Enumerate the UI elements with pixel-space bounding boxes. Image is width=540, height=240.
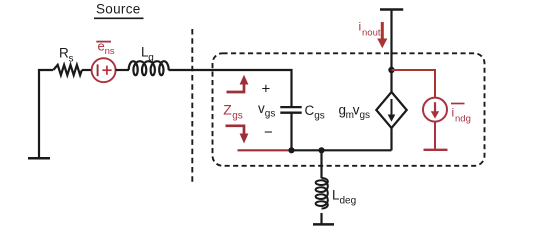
svg-text:Source: Source [96, 2, 141, 17]
svg-text:ndg: ndg [455, 114, 471, 125]
svg-text:i: i [359, 20, 362, 34]
red wire: Zgs reference to bottom node [238, 149, 292, 151]
voltage source ens (noise source circle) [92, 58, 116, 82]
wire: rail to Ldeg [320, 150, 322, 178]
wire: Ldeg to ground [320, 213, 322, 224]
svg-text:nout: nout [362, 28, 381, 39]
label Lg [141, 45, 154, 64]
label gmvgs [339, 102, 371, 121]
wire: output vertical (drain) [390, 10, 392, 93]
label inout [359, 20, 381, 39]
label: − polarity of vgs [264, 124, 273, 141]
wire: source loop left vertical [39, 70, 53, 158]
ground: indg reference bar [424, 149, 448, 151]
svg-text:Z: Z [223, 102, 232, 118]
ground: source side bar [28, 157, 50, 160]
impedance indicator Zgs bottom arrow [226, 126, 249, 144]
label Rs [59, 46, 74, 65]
current arrow inout [377, 22, 387, 48]
label Cgs [305, 103, 325, 122]
node: drain junction [388, 67, 394, 73]
svg-text:gs: gs [232, 111, 243, 122]
red wire: drain node to indg [392, 70, 436, 98]
svg-text:deg: deg [340, 196, 357, 207]
wire: indg bottom lead [434, 122, 436, 150]
svg-text:+: + [262, 81, 271, 98]
svg-text:g: g [148, 53, 154, 64]
node: Ldeg tap junction [318, 147, 324, 153]
label vgs [258, 101, 275, 120]
svg-text:gs: gs [314, 111, 325, 122]
label Ldeg [332, 188, 356, 207]
wire: diamond bottom to rail [390, 128, 392, 150]
wire: bottom rail [292, 149, 392, 151]
output terminal bar [380, 8, 403, 10]
svg-text:ns: ns [105, 46, 115, 57]
separator: vertical dashed line [191, 29, 193, 184]
wire: Rs to ens [82, 69, 92, 71]
label indg (overline) [451, 104, 471, 125]
wire: ens to Lg [116, 69, 129, 71]
dashed box: transistor small-signal model [213, 53, 485, 166]
capacitor Cgs [280, 107, 301, 150]
label ens (overline) [96, 39, 115, 58]
impedance indicator Zgs top arrow [227, 75, 249, 92]
label: Source header [94, 2, 144, 19]
VCCS gmvgs (diamond dependent source) [376, 92, 406, 128]
label Zgs [223, 102, 242, 122]
resistor Rs [53, 65, 82, 75]
label: + polarity of vgs [262, 81, 271, 98]
ground: Ldeg bar [313, 223, 334, 226]
inductor Ldeg [316, 178, 328, 209]
svg-text:−: − [264, 124, 273, 141]
svg-text:i: i [452, 106, 455, 120]
inductor Lg [129, 61, 169, 75]
svg-text:gs: gs [360, 110, 371, 121]
svg-text:s: s [69, 54, 74, 65]
svg-text:gs: gs [265, 109, 276, 120]
node: Cgs bottom junction [288, 147, 294, 153]
current source indg (noise, circle) [423, 98, 447, 122]
svg-text:C: C [305, 103, 315, 118]
svg-text:R: R [59, 46, 69, 61]
wire: Lg to gate corner, down to Cgs [169, 70, 292, 106]
